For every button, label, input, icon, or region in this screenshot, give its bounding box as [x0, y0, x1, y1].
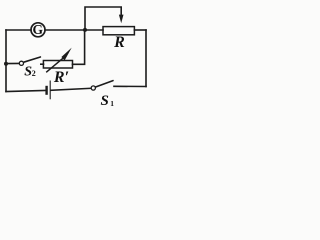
node junction at S2 branch dot	[4, 62, 8, 66]
switch S2 blade	[24, 57, 41, 62]
svg-text:R′: R′	[53, 69, 69, 86]
svg-text:1: 1	[110, 99, 114, 108]
wire S2 lead from left wire	[6, 62, 19, 64]
wire G to junction A and to R left terminal	[45, 29, 103, 31]
wire bottom left from battery	[6, 91, 45, 92]
variable resistor R' body	[43, 61, 72, 69]
switch S2 contact circle	[19, 61, 23, 65]
svg-text:S: S	[101, 93, 109, 108]
rheostat R body	[103, 27, 134, 35]
switch S1 contact circle	[91, 86, 95, 90]
svg-text:G: G	[33, 22, 44, 37]
battery positive plate long thin	[49, 81, 51, 100]
battery negative plate short thick	[45, 86, 47, 95]
wire junction up, top rail, slider stem	[85, 7, 121, 30]
wire R right terminal	[134, 29, 146, 31]
wire battery to S1 contact	[51, 88, 91, 90]
wire R' right terminal and up to junction A	[73, 30, 85, 64]
switch S1 blade	[96, 81, 113, 87]
wire left vertical	[5, 30, 7, 92]
slider arrow head on R	[119, 15, 124, 24]
wire bottom right to switch S1	[114, 85, 146, 87]
wire right vertical	[145, 30, 147, 87]
wire top-left to galvanometer	[6, 29, 31, 31]
node junction A dot	[83, 28, 87, 32]
svg-text:2: 2	[32, 69, 36, 78]
wire S2 blade tip to R' left terminal	[41, 63, 44, 65]
galvanometer G	[31, 23, 45, 37]
arrow through R'	[46, 58, 63, 72]
svg-text:R: R	[113, 34, 125, 51]
